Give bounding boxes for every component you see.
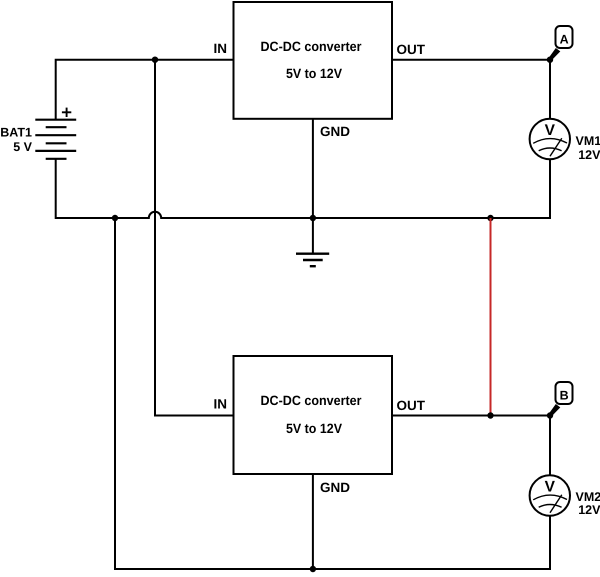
node A pointer wedge: [549, 48, 561, 61]
junction ground bus at ground symbol: [310, 215, 316, 221]
junction ground bus left: [112, 215, 118, 221]
VM1 meter scale arcs and needle: [533, 138, 567, 156]
svg-text:VM1: VM1: [576, 134, 600, 148]
svg-text:5V to 12V: 5V to 12V: [286, 66, 342, 81]
svg-text:DC-DC converter: DC-DC converter: [261, 393, 363, 408]
svg-text:B: B: [560, 389, 569, 403]
VM1 body circle: [530, 119, 570, 159]
battery BAT1: [0, 108, 76, 159]
svg-text:12V: 12V: [578, 148, 600, 162]
svg-text:GND: GND: [320, 480, 350, 495]
junction bottom bus at U2 GND: [310, 566, 316, 572]
svg-text:OUT: OUT: [397, 398, 426, 413]
node A: [549, 26, 573, 61]
svg-text:OUT: OUT: [397, 42, 426, 57]
svg-text:DC-DC converter: DC-DC converter: [261, 39, 363, 54]
svg-text:BAT1: BAT1: [0, 126, 32, 140]
junction at node A: [547, 57, 553, 63]
DC-DC converter U2: [214, 356, 426, 495]
svg-text:5 V: 5 V: [13, 140, 32, 154]
wire left vertical, bottom bus, up to VM2 bottom: [115, 218, 550, 569]
node B: [549, 382, 573, 417]
BAT1 cell plates: [35, 120, 76, 159]
svg-text:5V to 12V: 5V to 12V: [286, 421, 342, 436]
junction at node B: [547, 412, 553, 418]
voltmeter VM1: [530, 119, 600, 162]
VM2 meter scale arcs and needle: [533, 495, 567, 513]
voltmeter VM2: [530, 475, 600, 517]
svg-text:V: V: [545, 478, 556, 495]
node B pointer wedge: [549, 404, 561, 417]
junction on U1 IN wire: [152, 57, 158, 63]
svg-text:A: A: [560, 33, 569, 47]
VM2 body circle: [530, 475, 570, 515]
svg-text:12V: 12V: [578, 503, 600, 517]
wire U1 GND pin down through bus to ground symbol: [312, 119, 314, 254]
svg-text:IN: IN: [214, 397, 228, 412]
U1 body: [234, 2, 393, 119]
ground: [296, 254, 329, 267]
node B flag box: [556, 382, 573, 404]
BAT1 plus sign: [62, 108, 71, 117]
wire BAT1 positive terminal to U1 IN pin: [56, 60, 234, 120]
junction red wire at U2 OUT wire: [487, 412, 493, 418]
svg-text:V: V: [545, 122, 556, 139]
wire from IN junction down to U2 IN pin: [155, 60, 234, 416]
wire U2 GND pin to bottom bus: [312, 474, 314, 569]
junction ground bus at red wire: [487, 215, 493, 221]
node A flag box: [556, 26, 573, 48]
DC-DC converter U1: [214, 2, 426, 139]
svg-text:VM2: VM2: [576, 490, 600, 504]
U2 body: [234, 356, 393, 474]
red wire from ground bus to U2 OUT wire: [490, 218, 492, 416]
svg-text:IN: IN: [214, 41, 228, 56]
wire BAT1 negative terminal along ground bus (hop over vertical wire) up to VM1 bottom: [56, 159, 550, 218]
wire U1 OUT pin to node A and VM1 top: [392, 60, 550, 119]
wire U2 OUT pin to node B and VM2 top: [392, 416, 550, 476]
svg-text:GND: GND: [320, 124, 350, 139]
